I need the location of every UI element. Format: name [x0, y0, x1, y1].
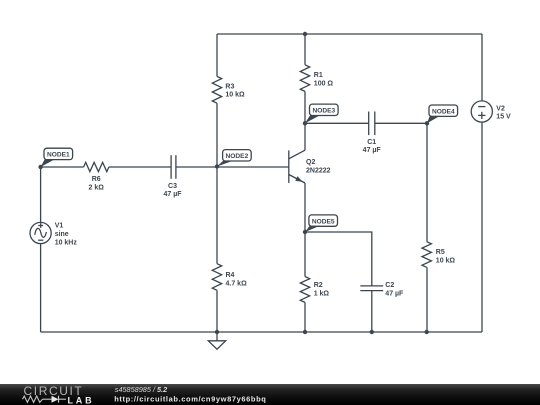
wire NODE1 to V1	[40, 167, 42, 222]
node junction R2 bottom	[303, 330, 307, 334]
wire C1 to NODE4	[375, 122, 427, 124]
wire bottom ground rail	[41, 331, 482, 333]
wire top supply rail	[217, 33, 482, 35]
wire R5 to bottom rail	[426, 267, 428, 332]
wire C3 to NODE2	[176, 166, 217, 168]
capacitor C2	[360, 282, 404, 297]
node junction top rail / R1	[303, 32, 307, 36]
wire NODE4 to R5	[426, 123, 428, 241]
wire R3 top lead	[216, 34, 218, 76]
wire R3 bottom lead to NODE2	[216, 103, 218, 166]
transistor Q2	[289, 150, 331, 183]
node junction R5 bottom	[425, 330, 429, 334]
resistor R2	[300, 277, 329, 303]
node NODE1 label	[41, 148, 73, 167]
footer schematic id text	[114, 385, 266, 404]
node junction ground	[215, 330, 219, 334]
voltage source V2	[471, 101, 511, 122]
svg-text:http://circuitlab.com/cn9yw87y: http://circuitlab.com/cn9yw87y66bbq	[114, 395, 266, 404]
node NODE2 junction	[215, 164, 219, 168]
wire C2 to bottom rail	[371, 291, 373, 332]
CircuitLab logo	[23, 384, 95, 405]
node NODE4 label	[427, 105, 458, 123]
ground	[208, 332, 225, 349]
svg-text:s45858985 / 5.2: s45858985 / 5.2	[115, 385, 167, 394]
node NODE5 label	[305, 215, 338, 232]
wire V2 bottom lead down right side	[481, 122, 483, 332]
node NODE5 junction	[303, 230, 307, 234]
wire NODE5 to R2	[304, 232, 306, 277]
wire R4 top lead from NODE2	[216, 167, 218, 264]
capacitor C1	[363, 112, 382, 155]
wire Q2 emitter to NODE5	[304, 183, 306, 232]
resistor R6	[84, 162, 109, 191]
resistor R5	[422, 242, 455, 268]
node NODE1 junction	[38, 165, 42, 169]
voltage source V1 sine	[30, 222, 77, 246]
wire V2 top lead	[481, 34, 483, 101]
resistor R1	[300, 65, 333, 92]
wire R1 top lead	[304, 34, 306, 65]
wire Q2 collector to NODE3	[304, 123, 306, 150]
svg-text:LAB: LAB	[68, 396, 95, 405]
resistor R4	[212, 264, 247, 291]
wire NODE2 to Q2 base	[217, 166, 289, 168]
wire NODE1 to R6	[41, 166, 84, 168]
wire V1 to bottom rail	[40, 244, 42, 332]
node junction C2 bottom	[370, 330, 374, 334]
capacitor C3	[163, 155, 182, 198]
wire NODE3 to C1	[305, 122, 369, 124]
footer bar	[0, 384, 540, 405]
wire NODE5 to C2 branch	[305, 232, 372, 286]
node NODE2 label	[217, 150, 251, 167]
node NODE3 label	[305, 104, 338, 123]
wire R6 to C3	[109, 166, 171, 168]
resistor R3	[212, 76, 245, 103]
node NODE4 junction	[425, 121, 429, 125]
wire R4 to ground junction	[216, 290, 218, 332]
wire R1 bottom lead to NODE3	[304, 91, 306, 123]
wire R2 to bottom rail	[304, 302, 306, 332]
node NODE3 junction	[303, 121, 307, 125]
